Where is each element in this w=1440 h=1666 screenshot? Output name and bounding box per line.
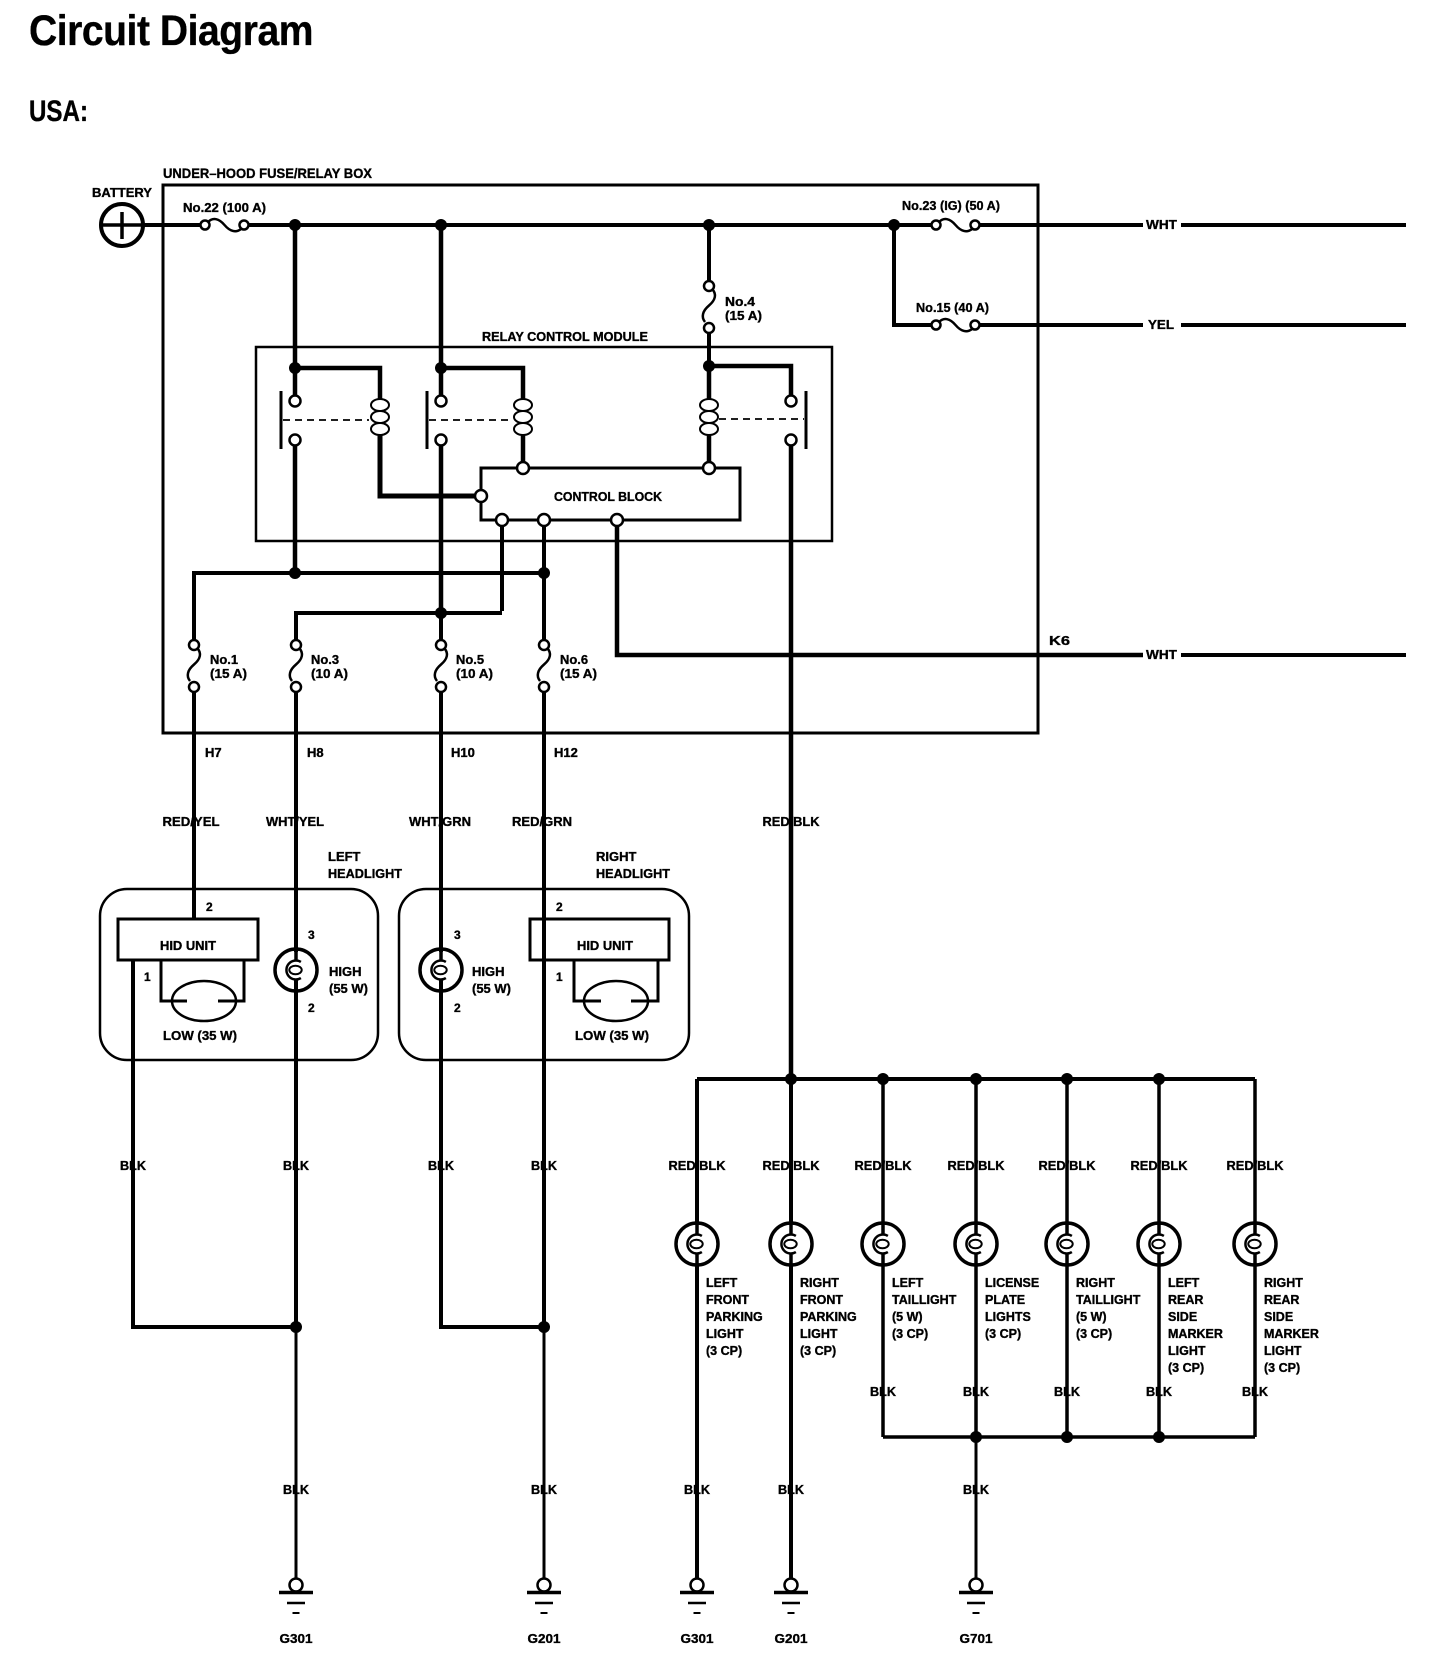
svg-text:USA:: USA: [29, 95, 88, 128]
wire relay2 feed drop [439, 225, 444, 368]
svg-text:(10 A): (10 A) [456, 666, 493, 681]
svg-text:WHT: WHT [1146, 217, 1177, 232]
node wire2/No.5 drop [435, 607, 447, 619]
fuse No.23 (IG) (50 A) [932, 219, 980, 231]
node relay3 branch [703, 360, 715, 372]
svg-text:(15 A): (15 A) [210, 666, 247, 681]
low beam bulb (right) leads [574, 960, 601, 1001]
svg-text:RED/GRN: RED/GRN [512, 814, 572, 829]
wire col1 bulb to ground [695, 1265, 699, 1578]
node rear bus/col4 [970, 1431, 982, 1443]
terminal control block bottom 3 [611, 514, 623, 526]
bulb right taillight [1046, 1223, 1088, 1265]
ground G701 (rear) [959, 1579, 993, 1614]
node rear bus/col5 [1061, 1431, 1073, 1443]
svg-text:UNDER–HOOD FUSE/RELAY BOX: UNDER–HOOD FUSE/RELAY BOX [163, 165, 373, 181]
svg-text:BLK: BLK [1242, 1384, 1269, 1399]
wire internal bus 2 (No.3/No.5 feed) [296, 613, 502, 640]
svg-text:(10 A): (10 A) [311, 666, 348, 681]
svg-text:RED/BLK: RED/BLK [763, 814, 821, 829]
wire battery to fuse No.22 [143, 223, 200, 227]
svg-text:No.4: No.4 [725, 294, 756, 309]
svg-text:BLK: BLK [120, 1158, 147, 1173]
relay1 switch contacts [281, 391, 301, 449]
wire col6 bulb to bottom bus [1157, 1265, 1161, 1437]
svg-text:BLK: BLK [283, 1482, 310, 1497]
wire relay2 node to coil2 [441, 368, 523, 399]
svg-text:1: 1 [144, 970, 151, 984]
svg-text:No.6: No.6 [560, 652, 588, 667]
node wire1/relay1 switch [289, 567, 301, 579]
wire right join to ground G201 [543, 1327, 546, 1578]
svg-text:HEADLIGHT: HEADLIGHT [328, 866, 402, 881]
node bus/license lights [970, 1073, 982, 1085]
svg-text:No.23 (IG) (50 A): No.23 (IG) (50 A) [902, 198, 1000, 213]
wire relay1 feed drop [293, 225, 298, 368]
wire relay1 node to coil1 [295, 368, 380, 399]
svg-text:BLK: BLK [428, 1158, 455, 1173]
svg-text:2: 2 [308, 1001, 315, 1015]
wire right HID pin1 down [542, 919, 546, 1327]
fuse No.15 (40 A) [932, 319, 980, 331]
svg-text:2: 2 [454, 1001, 461, 1015]
svg-text:2: 2 [556, 900, 563, 914]
svg-text:No.1: No.1 [210, 652, 238, 667]
wire block bottom2 down to internal wire 1 [542, 526, 546, 573]
wire relay1 coil to control block [380, 434, 475, 496]
svg-text:1: 1 [556, 970, 563, 984]
relay2 switch contacts [427, 391, 447, 449]
wire left high beam down [294, 979, 298, 1327]
fuse No.6 (15 A) [538, 640, 550, 692]
svg-text:K6: K6 [1049, 633, 1070, 648]
wire relay2 coil to control block terminal [521, 434, 526, 462]
node rear bus/col6 [1153, 1431, 1165, 1443]
bulb right rear side marker light [1234, 1223, 1276, 1265]
control block [481, 468, 740, 520]
ground G201 (headlight right) [527, 1579, 561, 1614]
relay2 actuating dashed link [429, 419, 512, 421]
svg-text:(15 A): (15 A) [560, 666, 597, 681]
relay3 coil L3 [700, 399, 718, 435]
svg-text:(55 W): (55 W) [329, 981, 368, 996]
wire branch down to fuse No.15 [894, 225, 931, 325]
wire col6 bus to bulb [1157, 1079, 1161, 1223]
relay2 coil L2 [514, 399, 532, 435]
terminal control block left [475, 490, 487, 502]
wire col5 bus to bulb [1065, 1079, 1069, 1223]
wire fuse No.15 to YEL label [980, 323, 1143, 327]
wire main bus fuse No.22 to fuse No.23 [249, 223, 931, 227]
wire left join to ground G301 [295, 1327, 298, 1578]
svg-text:G701: G701 [960, 1631, 993, 1646]
svg-text:LOW (35 W): LOW (35 W) [163, 1028, 237, 1043]
wire YEL to right edge [1181, 323, 1406, 327]
svg-text:WHT/GRN: WHT/GRN [409, 814, 471, 829]
svg-text:G301: G301 [280, 1631, 313, 1646]
wire col3 bulb to bottom bus [881, 1265, 885, 1437]
wire relay3 coil feed [707, 366, 712, 399]
wire col2 bus to bulb [789, 1079, 793, 1223]
wire No.5 drop [439, 613, 443, 640]
svg-text:RED/YEL: RED/YEL [163, 814, 220, 829]
wire col1 bus to bulb [695, 1079, 699, 1223]
wire K6 WHT to right edge [1181, 653, 1406, 657]
wire fuse No.4 to relay3 node [707, 333, 711, 366]
wire No.6 drop [542, 573, 546, 640]
wire relay1 switch down [293, 445, 298, 573]
svg-text:H8: H8 [307, 745, 324, 760]
wire No.5 to H10 connector [439, 692, 443, 952]
fuse No.22 (100 A) [201, 219, 249, 231]
ground G201 (parking right) [774, 1579, 808, 1614]
svg-text:BLK: BLK [870, 1384, 897, 1399]
svg-text:No.5: No.5 [456, 652, 484, 667]
wire relay2 switch feed [439, 368, 444, 396]
svg-text:HID UNIT: HID UNIT [577, 938, 633, 953]
node right BLK join [538, 1321, 550, 1333]
node bus/left rear marker [1153, 1073, 1165, 1085]
svg-text:3: 3 [308, 928, 315, 942]
relay3 actuating dashed link [719, 418, 804, 420]
relay1 actuating dashed link [283, 419, 369, 421]
bulb left taillight [862, 1223, 904, 1265]
terminal control block top 2 [703, 462, 715, 474]
svg-text:H12: H12 [554, 745, 578, 760]
relay3 switch contacts [786, 391, 807, 449]
svg-text:G201: G201 [528, 1631, 561, 1646]
node bus/No.4 feed [703, 219, 715, 231]
wire parking light bus [697, 1077, 1255, 1081]
wire col5 bulb to bottom bus [1065, 1265, 1069, 1437]
low beam bulb LOW (35 W) left [172, 981, 236, 1021]
svg-text:BATTERY: BATTERY [92, 185, 152, 200]
HID unit (right) [530, 919, 669, 960]
svg-text:(55 W): (55 W) [472, 981, 511, 996]
node bus/No.15 branch [888, 219, 900, 231]
svg-text:H7: H7 [205, 745, 222, 760]
wire col7 bulb to bottom bus [1253, 1265, 1257, 1437]
svg-text:HID UNIT: HID UNIT [160, 938, 216, 953]
wire relay3 switch down (RED/BLK feed) [789, 445, 794, 1079]
high beam bulb HIGH (55 W) right [420, 949, 462, 991]
low beam bulb (left) leads [161, 960, 187, 1001]
fuse No.3 (10 A) [290, 640, 302, 692]
wire block bottom3 down (K6 output) [617, 526, 1143, 655]
svg-text:WHT/YEL: WHT/YEL [266, 814, 324, 829]
terminal control block top 1 [517, 462, 529, 474]
svg-text:BLK: BLK [531, 1482, 558, 1497]
wire WHT to right edge [1181, 223, 1406, 227]
svg-text:G201: G201 [775, 1631, 808, 1646]
wire No.4 feed drop [707, 225, 711, 281]
wire right high beam down and over [441, 979, 544, 1327]
wire No.6 to H12 connector [542, 692, 546, 919]
svg-text:LOW (35 W): LOW (35 W) [575, 1028, 649, 1043]
wire col3 bus to bulb [881, 1079, 885, 1223]
left headlight enclosure [100, 889, 378, 1060]
wire rear ground bus [883, 1435, 1255, 1439]
wire left HID pin1 down and over [133, 960, 296, 1327]
fuse No.4 (15 A) [703, 281, 715, 333]
node bus/left taillight [877, 1073, 889, 1085]
node bus/RED-BLK feed [785, 1073, 797, 1085]
svg-text:BLK: BLK [1054, 1384, 1081, 1399]
bulb left front parking light [676, 1223, 718, 1265]
svg-text:YEL: YEL [1148, 317, 1174, 332]
svg-text:WHT: WHT [1146, 647, 1177, 662]
node bus/relay2 feed [435, 219, 447, 231]
wire No.3 to H8 connector [294, 692, 298, 952]
svg-text:LEFT: LEFT [328, 849, 361, 864]
svg-text:RELAY CONTROL MODULE: RELAY CONTROL MODULE [482, 329, 648, 344]
svg-text:BLK: BLK [531, 1158, 558, 1173]
bulb license plate lights [955, 1223, 997, 1265]
wire relay1 switch feed [293, 368, 298, 396]
node left BLK join [290, 1321, 302, 1333]
wire col4 bulb to bottom bus [974, 1265, 978, 1437]
relay1 coil L1 [371, 399, 389, 435]
ground G301 (parking left) [680, 1579, 714, 1614]
wire relay3 node to switch3 [709, 366, 791, 396]
low beam bulb LOW (35 W) right [584, 981, 648, 1021]
node relay1 branch [289, 362, 301, 374]
wire fuse No.23 to WHT label [980, 223, 1143, 227]
battery B1 [101, 204, 143, 246]
svg-text:BLK: BLK [963, 1482, 990, 1497]
node bus/right taillight [1061, 1073, 1073, 1085]
svg-text:No.22 (100 A): No.22 (100 A) [183, 200, 266, 215]
svg-text:3: 3 [454, 928, 461, 942]
fuse No.1 (15 A) [188, 640, 200, 692]
terminal control block bottom 2 [538, 514, 550, 526]
ground G301 (headlight left) [279, 1579, 313, 1614]
under-hood fuse/relay box outline [163, 185, 1038, 733]
node bus/relay1 feed [289, 219, 301, 231]
wire col7 bus to bulb [1253, 1079, 1257, 1223]
fuse No.5 (10 A) [435, 640, 447, 692]
wire block bottom1 down to internal wire 2 [500, 526, 504, 611]
svg-text:RIGHT: RIGHT [596, 849, 637, 864]
wire internal bus 1 (No.1/No.6 feed) [194, 573, 544, 640]
relay control module outline [256, 347, 832, 541]
svg-text:No.3: No.3 [311, 652, 339, 667]
high beam bulb HIGH (55 W) left [275, 949, 317, 991]
svg-text:H10: H10 [451, 745, 475, 760]
HID unit (left) [118, 919, 258, 960]
svg-text:BLK: BLK [684, 1482, 711, 1497]
svg-text:No.15 (40 A): No.15 (40 A) [916, 300, 989, 315]
wire relay2 switch down [439, 445, 444, 613]
node relay2 branch [435, 362, 447, 374]
svg-text:BLK: BLK [1146, 1384, 1173, 1399]
wire No.1 to H7 connector [192, 692, 196, 919]
svg-text:CONTROL BLOCK: CONTROL BLOCK [554, 489, 663, 504]
wire col4 bus to bulb [974, 1079, 978, 1223]
node wire1/No.6 drop [538, 567, 550, 579]
bulb left rear side marker light [1138, 1223, 1180, 1265]
svg-text:G301: G301 [681, 1631, 714, 1646]
wire relay3 coil to control block terminal [707, 434, 712, 462]
svg-text:BLK: BLK [963, 1384, 990, 1399]
svg-text:HIGH: HIGH [329, 964, 362, 979]
wire rear bus to ground G701 [975, 1437, 978, 1578]
bulb right front parking light [770, 1223, 812, 1265]
right headlight enclosure [399, 889, 689, 1060]
svg-text:BLK: BLK [778, 1482, 805, 1497]
svg-text:2: 2 [206, 900, 213, 914]
svg-text:(15 A): (15 A) [725, 308, 762, 323]
terminal control block bottom 1 [496, 514, 508, 526]
svg-text:Circuit Diagram: Circuit Diagram [29, 7, 313, 55]
wire col2 bulb to ground [789, 1265, 793, 1578]
svg-text:HEADLIGHT: HEADLIGHT [596, 866, 670, 881]
svg-text:BLK: BLK [283, 1158, 310, 1173]
svg-text:HIGH: HIGH [472, 964, 505, 979]
